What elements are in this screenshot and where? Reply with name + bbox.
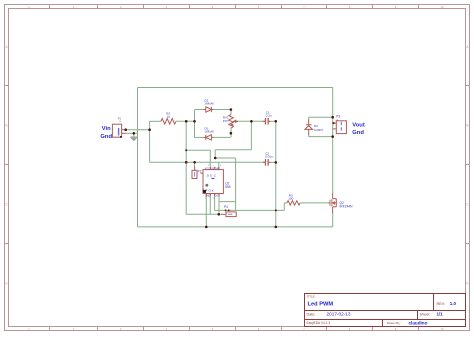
svg-text:1k: 1k <box>119 121 121 123</box>
svg-text:F O a: F O a <box>206 189 214 193</box>
svg-text:1N4007: 1N4007 <box>314 128 324 132</box>
svg-text:Gnd: Gnd <box>100 134 112 140</box>
svg-text:D3: D3 <box>314 124 318 128</box>
svg-text:Vin: Vin <box>102 126 111 132</box>
svg-text:P3: P3 <box>336 115 340 119</box>
svg-text:6: 6 <box>220 165 221 167</box>
svg-text:1k: 1k <box>167 115 171 119</box>
svg-text:100: 100 <box>288 197 293 201</box>
svg-text:REV:: REV: <box>437 302 446 306</box>
svg-text:1N4148: 1N4148 <box>205 102 215 106</box>
svg-text:0.01u: 0.01u <box>265 155 273 159</box>
svg-text:EasyEDA V4.1.3: EasyEDA V4.1.3 <box>307 321 331 325</box>
svg-text:1/1: 1/1 <box>437 312 444 317</box>
svg-text:Drawn By:: Drawn By: <box>387 321 401 325</box>
svg-text:POT: POT <box>223 119 229 123</box>
svg-text:P4: P4 <box>224 205 228 209</box>
svg-text:2017-02-13: 2017-02-13 <box>327 312 351 317</box>
svg-text:3: 3 <box>213 198 214 200</box>
svg-text:Date:: Date: <box>307 313 316 317</box>
svg-text:10: 10 <box>440 327 444 331</box>
svg-text:7: 7 <box>213 165 214 167</box>
svg-text:P2: P2 <box>198 169 202 173</box>
svg-text:GND: GND <box>205 195 210 197</box>
svg-text:10: 10 <box>440 5 444 9</box>
svg-text:1N4148: 1N4148 <box>205 130 215 134</box>
svg-text:Sheet:: Sheet: <box>420 313 431 317</box>
svg-text:1: 1 <box>205 198 206 200</box>
svg-text:IRFZ44N: IRFZ44N <box>340 205 354 209</box>
svg-text:Led PWM: Led PWM <box>308 302 334 308</box>
svg-text:1.0: 1.0 <box>450 301 457 306</box>
svg-text:Gnd: Gnd <box>352 130 364 136</box>
svg-text:VCC DIS THR: VCC DIS THR <box>205 168 220 170</box>
svg-text:OUT: OUT <box>215 195 220 197</box>
svg-text:8: 8 <box>208 165 209 167</box>
svg-text:out: out <box>335 118 338 121</box>
svg-text:Vout: Vout <box>352 123 365 129</box>
svg-text:555: 555 <box>225 185 231 189</box>
svg-text:P1: P1 <box>118 117 122 121</box>
svg-text:TITLE:: TITLE: <box>307 295 316 299</box>
svg-text:claudino: claudino <box>409 320 428 325</box>
svg-text:0.1u: 0.1u <box>266 114 272 118</box>
svg-text:.DS C: .DS C <box>206 174 217 178</box>
svg-text:s: s <box>337 203 338 205</box>
